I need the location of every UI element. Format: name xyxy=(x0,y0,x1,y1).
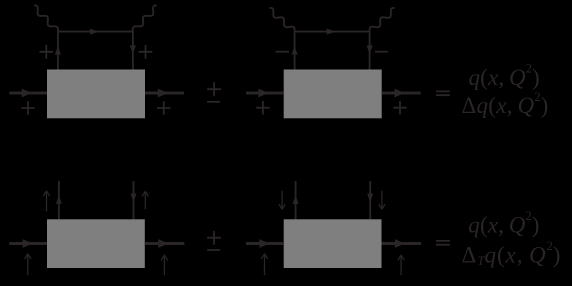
plus-minus sign (top row) xyxy=(207,82,221,102)
photon wavy line (left, first top diagram) xyxy=(35,5,58,31)
photon wavy line (right, second top diagram) xyxy=(370,8,394,32)
nucleon line incoming (first top diagram) xyxy=(9,89,47,98)
nucleon helicity plus label (bottom right, second top diagram) xyxy=(393,101,407,115)
quark leg right vertical (third diagram) xyxy=(131,181,137,221)
transverse spin down arrow (right top, fourth diagram) xyxy=(379,191,385,209)
equals sign (top row) xyxy=(436,91,450,95)
transverse spin up arrow (left top, third diagram) xyxy=(44,191,50,211)
nucleon line outgoing (second top diagram) xyxy=(382,89,421,98)
quark propagator (top horizontal, second top diagram) xyxy=(295,29,370,35)
equation Delta q(x,Q^2) top row denominator xyxy=(462,90,549,118)
quark leg left vertical (first top diagram) xyxy=(55,32,61,72)
nucleon helicity plus label (bottom right, first top diagram) xyxy=(157,101,171,115)
nucleon transverse spin up arrow (bottom left, fourth diagram) xyxy=(262,254,268,275)
svg-text:ΔTq(x, Q2): ΔTq(x, Q2) xyxy=(462,239,562,268)
helicity minus label (left top, second top diagram) xyxy=(276,51,289,53)
nucleon helicity plus label (bottom left, first top diagram) xyxy=(21,101,35,115)
hadron blob box (third diagram) xyxy=(47,219,145,268)
hadron blob box (first top diagram) xyxy=(47,70,145,119)
nucleon transverse spin up arrow (bottom right, third diagram) xyxy=(161,255,167,275)
quark leg left vertical (fourth diagram) xyxy=(293,181,299,221)
transverse spin down arrow (left top, fourth diagram) xyxy=(279,191,285,209)
nucleon line incoming (fourth diagram) xyxy=(246,239,284,248)
hadron blob box (fourth diagram) xyxy=(284,219,382,268)
equation q(x,Q^2) bottom row numerator xyxy=(468,209,539,237)
photon wavy line (right, first top diagram) xyxy=(133,5,156,31)
plus-minus sign (bottom row) xyxy=(207,231,221,250)
quark propagator (top horizontal, first top diagram) xyxy=(58,29,133,35)
nucleon transverse spin up arrow (bottom left, third diagram) xyxy=(25,254,31,275)
quark leg right vertical (first top diagram) xyxy=(130,32,136,72)
transverse spin up arrow (right top, third diagram) xyxy=(142,191,148,209)
nucleon line outgoing (first top diagram) xyxy=(145,89,184,98)
quark leg left vertical (third diagram) xyxy=(56,181,62,221)
equals sign (bottom row) xyxy=(436,241,450,245)
nucleon line outgoing (third diagram) xyxy=(145,239,185,248)
helicity plus label (left top, first top diagram) xyxy=(40,45,54,59)
helicity minus label (right top, second top diagram) xyxy=(375,51,388,53)
nucleon line outgoing (fourth diagram) xyxy=(382,239,422,248)
quark leg right vertical (fourth diagram) xyxy=(367,181,373,221)
hadron blob box (second top diagram) xyxy=(284,70,382,119)
equation q(x,Q^2) top row numerator xyxy=(469,62,540,90)
photon wavy line (left, second top diagram) xyxy=(270,8,294,32)
nucleon line incoming (third diagram) xyxy=(9,239,47,248)
equation Delta_T q(x,Q^2) bottom row denominator xyxy=(462,239,562,268)
nucleon transverse spin up arrow (bottom right, fourth diagram) xyxy=(398,255,404,275)
quark leg left vertical (second top diagram) xyxy=(292,32,298,72)
quark leg right vertical (second top diagram) xyxy=(367,32,373,72)
helicity plus label (right top, first top diagram) xyxy=(139,45,153,59)
nucleon helicity plus label (bottom left, second top diagram) xyxy=(256,101,270,115)
nucleon line incoming (second top diagram) xyxy=(246,89,284,98)
